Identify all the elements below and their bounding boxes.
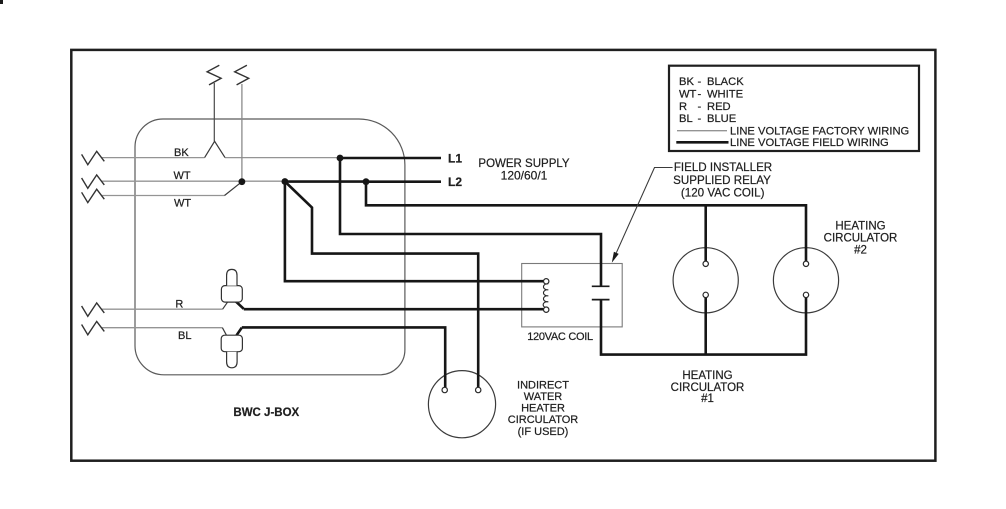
relay contact bar bottom [592,299,610,301]
field wire: BL nut to indirect circulator left lead [237,327,446,387]
field wire: L1 stub [340,157,441,160]
cable break symbol R [82,303,105,316]
cable break symbol BK [82,151,105,164]
svg-text:BK: BK [174,147,189,159]
svg-text:FIELD INSTALLER: FIELD INSTALLER [674,161,772,174]
svg-text:#2: #2 [854,244,867,256]
svg-text:LINE VOLTAGE FIELD WIRING: LINE VOLTAGE FIELD WIRING [730,137,889,149]
field wire: heating circulator #1 bottom lead [704,298,707,355]
junction node on L2 [363,178,370,185]
relay contact bar top [592,285,610,287]
wire nut on BL line (cap tip) [227,352,238,368]
legend field wiring sample [676,141,728,144]
field wire: L2 stub [366,180,441,183]
wire nut on R line (body) [221,286,242,303]
indirect circulator terminal left [442,387,447,392]
relay box outline U1 [522,264,623,327]
cable break symbol top 1 (vertical) [207,65,221,85]
svg-text:CIRCULATOR: CIRCULATOR [824,233,898,245]
svg-text:BWC J-BOX: BWC J-BOX [233,407,299,419]
wire WT2 factory (gray) [101,195,225,197]
svg-text:120/60/1: 120/60/1 [501,169,548,183]
junction node WT/break2 [239,178,246,185]
field wire: WT junction down to relay coil top [285,182,544,282]
cable break symbol top 2 (vertical) [235,65,249,85]
svg-text:(120 VAC COIL): (120 VAC COIL) [681,187,765,200]
svg-text:HEATING: HEATING [682,370,732,382]
heating circulator #2 body [773,248,838,313]
outer border frame [71,50,935,461]
field wire: heating circulator #1 top lead [704,205,707,261]
R wire diagonal into wire nut [223,302,228,309]
svg-text:BL-BLUE: BL-BLUE [679,113,736,125]
field wire: WT junction to L2 junction [285,180,366,183]
svg-text:WATER: WATER [524,391,563,403]
svg-text:WT: WT [174,198,191,210]
field wire: relay contact bottom to circulators bottom bus [601,298,806,355]
wire BL factory (gray) [101,327,222,329]
wire BK factory (gray) [101,157,340,159]
heating circulator #2 terminal top [803,261,808,266]
field wire: R nut to relay coil bottom [236,302,544,310]
wire nut on R line (cap tip) [227,269,237,285]
leader arrowhead [612,252,619,263]
indirect water heater circulator body [428,371,495,438]
svg-text:HEATING: HEATING [835,221,885,233]
svg-text:LINE VOLTAGE FACTORY WIRING: LINE VOLTAGE FACTORY WIRING [730,125,909,137]
relay coil terminal bottom [544,307,549,312]
svg-text:SUPPLIED RELAY: SUPPLIED RELAY [673,174,771,187]
svg-text:R: R [175,299,183,311]
svg-text:L1: L1 [448,152,462,166]
wire vertical to top break 1 [213,83,215,141]
wire R factory (gray) [101,308,223,310]
svg-text:BK-BLACK: BK-BLACK [679,76,744,88]
cable break symbol BL [82,321,105,334]
corner artifact [0,0,3,4]
indirect circulator terminal right [476,387,481,392]
svg-text:INDIRECT: INDIRECT [517,380,569,392]
WT2 merge diagonal [225,182,242,196]
heating circulator #2 terminal bottom [803,292,808,297]
field wire: L2 junction down and over to circ2 top [366,182,806,262]
heating circulator #1 body [673,248,738,313]
svg-text:(IF USED): (IF USED) [518,426,569,438]
cable break symbol WT2 [82,189,105,202]
svg-text:BL: BL [178,330,191,342]
svg-text:CIRCULATOR: CIRCULATOR [671,382,745,394]
heating circulator #1 terminal bottom [703,292,708,297]
field wire: L1 junction down and over to relay contact [340,158,601,286]
svg-text:WT: WT [174,170,191,182]
legend factory wiring sample [677,130,727,132]
svg-text:WT-WHITE: WT-WHITE [679,88,743,100]
junction node WT/field [282,178,289,185]
wire vertical to top break 2 (gray) [241,84,243,182]
BK tent junction to top break 1 [205,141,225,157]
wire nut on BL line (body) [221,335,242,352]
svg-text:L2: L2 [448,175,462,189]
legend box [669,66,919,151]
heating circulator #1 terminal top [703,261,708,266]
cable break symbol WT [82,175,105,188]
relay coil terminal top [544,279,549,284]
BL wire diagonal into wire nut [222,328,226,336]
relay coil loops [543,284,548,308]
field wire: WT junction diagonal to indirect circulator right lead [285,182,478,388]
BWC J-BOX enclosure outline [135,119,405,375]
svg-text:120VAC COIL: 120VAC COIL [527,331,593,343]
wire WT factory (gray) [101,180,285,182]
svg-text:#1: #1 [701,393,714,405]
leader line to relay [616,168,672,253]
svg-text:CIRCULATOR: CIRCULATOR [508,414,579,426]
junction node on L1 [337,155,344,162]
svg-text:HEATER: HEATER [521,403,565,415]
